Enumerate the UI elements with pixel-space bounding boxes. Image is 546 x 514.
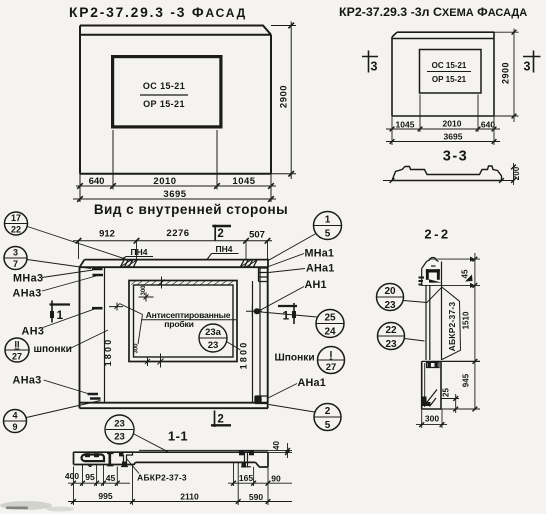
section 3-3 profile [383, 166, 513, 183]
svg-text:3: 3 [524, 60, 531, 74]
svg-text:20: 20 [384, 286, 396, 297]
anchor bracket (bottom-left) [88, 394, 101, 399]
top flange strip [79, 260, 269, 268]
svg-text:17: 17 [11, 213, 21, 223]
label АБИР2-37-3 (1-1) [126, 458, 187, 483]
svg-text:165: 165 [239, 473, 253, 483]
svg-text:АНа1: АНа1 [306, 263, 334, 275]
svg-text:3-3: 3-3 [443, 149, 468, 165]
dimension 3695 [73, 189, 276, 202]
svg-text:2010: 2010 [153, 176, 176, 187]
dimension row 400 95 45 АБИР2-37-3 165 90 [65, 471, 292, 486]
svg-text:3695: 3695 [444, 132, 463, 142]
label АН3 [22, 309, 96, 338]
dimension 3695 (scheme) [386, 132, 500, 144]
callout 4/9 [4, 401, 101, 433]
sill embed (2-2) [427, 362, 440, 367]
svg-text:2010: 2010 [443, 119, 462, 129]
title: Вид с внутренней стороны [94, 202, 288, 217]
svg-text:23: 23 [385, 339, 397, 350]
T-embed (1-1, window jamb left) [119, 452, 133, 467]
svg-text:МНа1: МНа1 [305, 248, 335, 260]
scan smudge bottom-left [0, 501, 74, 512]
anchor diagonals (2-2 bottom) [423, 390, 438, 407]
svg-text:АНа3: АНа3 [13, 375, 42, 387]
extension lines (1-1) [74, 462, 269, 505]
svg-text:шпонки: шпонки [34, 344, 72, 355]
facade panel outline [80, 26, 271, 174]
svg-text:590: 590 [249, 492, 263, 502]
svg-text:90: 90 [271, 474, 281, 484]
T-embed (1-1, window jamb right) [239, 451, 255, 468]
svg-text:3: 3 [371, 60, 378, 74]
label АНа1 (top) [269, 263, 335, 275]
facade window opening ОС15-21 [113, 57, 221, 127]
dimension 40 (1-1 top right) [268, 441, 292, 458]
flange hatch ПН4 right [241, 260, 258, 267]
svg-text:24: 24 [324, 327, 336, 338]
svg-text:300: 300 [425, 414, 439, 424]
svg-text:Вид с внутренней стороны: Вид с внутренней стороны [94, 202, 288, 217]
svg-text:912: 912 [99, 229, 115, 240]
title: КР2-37.29.3 -3л Схема фасада [339, 5, 527, 19]
svg-text:5: 5 [325, 420, 331, 431]
svg-text:45: 45 [460, 269, 469, 278]
svg-text:23: 23 [114, 419, 125, 430]
svg-text:2: 2 [217, 228, 223, 240]
callout 25/24 [261, 310, 344, 338]
svg-text:25: 25 [442, 388, 451, 397]
svg-text:1: 1 [325, 215, 331, 226]
svg-text:АНа3: АНа3 [13, 288, 42, 300]
svg-text:945: 945 [462, 373, 471, 387]
svg-text:45: 45 [106, 473, 116, 483]
callout 2/5 [269, 404, 341, 432]
dimension 25 (2-2) [441, 388, 459, 413]
flange hatch ПН4 left [121, 260, 138, 267]
svg-text:40: 40 [272, 441, 281, 450]
svg-text:ОС 15-21: ОС 15-21 [143, 81, 185, 91]
callout 3/7 [4, 247, 91, 270]
svg-text:7: 7 [13, 259, 18, 269]
label шпонки (left) [34, 330, 109, 355]
svg-text:23а: 23а [205, 327, 222, 338]
svg-text:1045: 1045 [232, 176, 255, 187]
svg-text:МНа3: МНа3 [13, 273, 43, 285]
svg-text:27: 27 [12, 352, 22, 362]
section marker 1 (right) [278, 303, 297, 324]
svg-text:АН1: АН1 [305, 279, 327, 291]
svg-text:2: 2 [217, 413, 223, 425]
section marker 2 (top) [212, 225, 231, 241]
anchor bracket МНа3/АНа3 (top-left) [92, 269, 103, 275]
svg-text:9: 9 [12, 422, 17, 432]
window opening (double frame) [129, 281, 237, 362]
plug mark 300 (window top-left) [139, 277, 165, 302]
svg-text:1800: 1800 [103, 338, 113, 367]
dimension 1510 (2-2) [462, 311, 478, 364]
plug mark 300 (window bottom-left) [134, 343, 164, 368]
svg-text:2110: 2110 [180, 492, 199, 502]
svg-text:23: 23 [114, 432, 125, 443]
label ПН4 (right) [207, 244, 239, 260]
svg-text:2900: 2900 [278, 85, 289, 108]
svg-text:22: 22 [11, 225, 21, 235]
svg-text:300: 300 [134, 343, 140, 354]
svg-text:КР2-37.29.3 -3 ФАСАД: КР2-37.29.3 -3 ФАСАД [69, 5, 247, 20]
dimension 945 (2-2) [441, 257, 480, 412]
T-embed (1-1, x110) [107, 453, 114, 466]
svg-text:507: 507 [249, 230, 265, 241]
svg-text:2276: 2276 [166, 228, 189, 239]
anchor bracket АНа1 (bottom-right) [255, 396, 268, 404]
title: КР2-37.29.3 -3 Фасад [69, 5, 247, 20]
scheme panel outline [392, 32, 494, 116]
svg-text:23: 23 [208, 340, 219, 351]
svg-text:КР2-37.29.3 -3л СХЕМА ФАСАДА: КР2-37.29.3 -3л СХЕМА ФАСАДА [339, 5, 527, 19]
svg-text:4: 4 [12, 411, 17, 421]
scheme window ОС15-21 [420, 50, 482, 94]
svg-text:ОС 15-21: ОС 15-21 [432, 61, 467, 70]
callout 23/23 (bottom) [105, 415, 168, 452]
svg-text:2-2: 2-2 [424, 227, 450, 242]
callout 17/22 [5, 212, 134, 262]
scheme extension lines [392, 95, 494, 146]
svg-text:1-1: 1-1 [168, 429, 188, 444]
svg-text:1510: 1510 [462, 311, 471, 329]
svg-text:1800: 1800 [239, 341, 249, 370]
text Антисептированные пробки [120, 304, 237, 345]
callout 1/5 [269, 212, 342, 261]
callout 22/23 [378, 323, 425, 351]
svg-text:640: 640 [481, 120, 495, 130]
section marker 3 (right) [523, 51, 541, 74]
svg-text:АН3: АН3 [22, 326, 45, 338]
section 2-2 head detail [419, 257, 442, 285]
svg-text:3: 3 [13, 248, 18, 258]
svg-text:5: 5 [325, 229, 331, 240]
anchor bracket АНа1 (top-right) [259, 268, 269, 282]
label МНа3 [13, 270, 93, 285]
scheme vertical dimension 2900 [494, 29, 519, 123]
facade extension lines below [80, 130, 271, 202]
svg-text:25: 25 [324, 313, 336, 324]
svg-text:95: 95 [85, 472, 95, 482]
dimension line (2-2 top, 45) [421, 253, 480, 410]
section marker 2 (bottom) [211, 411, 231, 428]
facade vertical dimension 2900 [271, 22, 296, 180]
svg-text:II: II [14, 340, 19, 350]
dimension 1045 | 2010 | 640 [386, 119, 500, 132]
label АНа3 (lower) [13, 375, 92, 395]
label Шпонки (right) [275, 353, 315, 364]
label ПН4 (left) [121, 247, 154, 260]
svg-text:I: I [330, 350, 333, 361]
svg-text:400: 400 [65, 471, 79, 481]
channel embed (1-1 left) [81, 453, 104, 466]
svg-text:2: 2 [325, 406, 331, 417]
svg-text:995: 995 [98, 491, 112, 501]
svg-text:АНа1: АНа1 [298, 377, 326, 389]
callout 23а/23 [199, 324, 241, 352]
section 1-1 profile outline [74, 450, 269, 467]
sill line (2-2) [422, 360, 480, 362]
panel body outline [80, 267, 269, 408]
svg-text:3695: 3695 [163, 189, 186, 200]
dimension 640 | 2010 | 1045 [76, 176, 276, 189]
svg-text:1045: 1045 [396, 120, 415, 130]
svg-text:2900: 2900 [501, 62, 511, 84]
svg-text:640: 640 [89, 176, 105, 187]
svg-text:22: 22 [385, 325, 397, 336]
label 2-2 [424, 227, 450, 242]
svg-text:АБКР2-37-3: АБКР2-37-3 [137, 473, 187, 483]
anchor АН1 dot (right rib) [246, 306, 262, 317]
svg-text:ПН4: ПН4 [216, 244, 233, 254]
svg-text:АБКР2-37-3: АБКР2-37-3 [447, 302, 457, 352]
plug mark (left rib) [109, 303, 123, 311]
label 3-3 [443, 149, 468, 165]
svg-text:ПН4: ПН4 [131, 247, 148, 257]
dimension row 995 2110 590 [68, 491, 292, 504]
callout 20/23 [377, 284, 442, 312]
pennant label АБКР2-37-3 (2-2) [442, 287, 461, 360]
dimension 300 (2-2 bottom) [416, 409, 447, 428]
callout I/27 [318, 347, 345, 374]
callout II/27 (шпонки) [5, 338, 29, 362]
label 1-1 [168, 429, 188, 444]
lower body (2-2) [422, 361, 441, 409]
svg-text:ОР 15-21: ОР 15-21 [143, 99, 185, 109]
section marker 1 (left) [50, 301, 71, 323]
svg-text:1: 1 [57, 308, 64, 322]
dimension 200 (3-3 profile) [511, 163, 521, 185]
label АНа1 (bottom) [268, 377, 326, 398]
svg-text:27: 27 [326, 362, 337, 373]
svg-text:1: 1 [283, 309, 290, 323]
vertical 1800 (left) [103, 338, 113, 367]
svg-text:Шпонки: Шпонки [275, 353, 315, 364]
vertical 1800 (right) [239, 341, 249, 370]
top dimension 912 | 2276 | 507 [73, 228, 272, 260]
section 2-2 jamb verticals [426, 286, 442, 361]
label АНа3 [13, 276, 97, 300]
label МНа1 [269, 248, 335, 267]
svg-text:ОР 15-21: ОР 15-21 [432, 75, 467, 84]
svg-text:23: 23 [384, 300, 396, 311]
anchor dash АН3 (mid-left) [92, 307, 103, 310]
section marker 3 (left) [362, 51, 378, 74]
svg-text:пробки: пробки [164, 319, 193, 329]
label АН1 [260, 279, 327, 310]
svg-text:200: 200 [512, 166, 521, 180]
